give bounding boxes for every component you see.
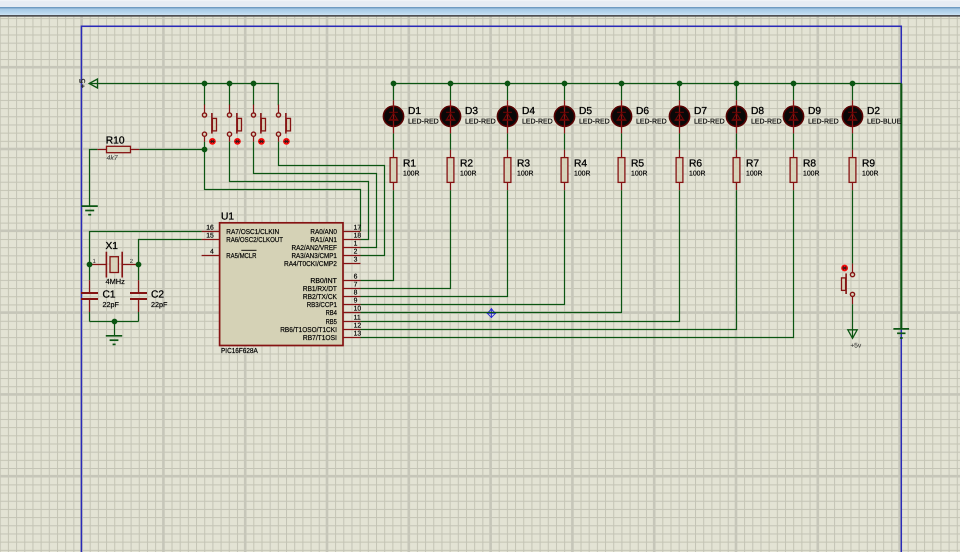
svg-text:LED-RED: LED-RED — [522, 119, 553, 126]
resistor R2 (100R) — [447, 150, 476, 190]
svg-text:D4: D4 — [522, 106, 535, 117]
resistor R9 (100R) — [849, 150, 878, 190]
svg-text:RA7/OSC1/CLKIN: RA7/OSC1/CLKIN — [226, 228, 279, 236]
svg-text:RA6/OSC2/CLKOUT: RA6/OSC2/CLKOUT — [226, 236, 283, 244]
svg-text:R2: R2 — [460, 159, 473, 170]
svg-text:RB0/INT: RB0/INT — [310, 277, 337, 285]
svg-text:D2: D2 — [867, 106, 880, 117]
svg-text:12: 12 — [354, 323, 362, 330]
svg-text:4MHz: 4MHz — [106, 277, 126, 286]
U1 pin 6 (RB0/INT) — [310, 274, 360, 286]
svg-text:4: 4 — [210, 249, 214, 256]
wire: R10 left to ground — [90, 150, 98, 206]
svg-text:RB6/T1OSO/T1CKI: RB6/T1OSO/T1CKI — [280, 326, 337, 334]
svg-text:C2: C2 — [151, 290, 164, 301]
wire: D2 cathode to R9 — [852, 133, 854, 149]
svg-text:RA3/AN3/CMP1: RA3/AN3/CMP1 — [292, 252, 337, 260]
U1 pin 8 (RB2/TX/CK) — [303, 290, 361, 302]
svg-text:100R: 100R — [862, 170, 878, 177]
svg-text:U1: U1 — [221, 212, 234, 223]
LED D1 (LED-RED) — [383, 84, 438, 134]
svg-text:100R: 100R — [403, 170, 419, 177]
svg-text:LED-RED: LED-RED — [808, 119, 839, 126]
wire: R3 to U1 pin 8 (RB2) — [361, 190, 508, 296]
LED D9 (LED-RED) — [783, 84, 838, 134]
wire: U1 pin 15 to X1 pin 2 — [139, 240, 202, 265]
U1 pin 12 (RB6/T1OSO/T1CKI) — [280, 323, 361, 335]
svg-text:3: 3 — [354, 257, 358, 264]
U1 pin 15 (RA6/OSC2/CLKOUT) — [202, 233, 284, 245]
wire: D8 cathode to R7 — [736, 133, 738, 149]
resistor R8 (100R) — [790, 150, 819, 190]
svg-text:LED-RED: LED-RED — [636, 119, 667, 126]
LED D2 (LED-BLUE) — [842, 84, 901, 134]
svg-text:LED-RED: LED-RED — [465, 119, 496, 126]
wire: +5 rail feeding push buttons — [98, 84, 278, 106]
svg-text:RB7/T1OSI: RB7/T1OSI — [303, 334, 337, 342]
svg-text:RA4/T0CKI/CMP2: RA4/T0CKI/CMP2 — [284, 260, 337, 268]
svg-text:+5v: +5v — [850, 343, 862, 350]
LED D4 (LED-RED) — [497, 84, 552, 134]
wire: SW2 to U1 pin 18 (RA1) — [230, 142, 369, 240]
U1 pin 18 (RA1/AN1) — [310, 233, 361, 245]
svg-text:LED-RED: LED-RED — [408, 119, 439, 126]
push button SW3 — [251, 105, 265, 145]
svg-text:PIC16F628A: PIC16F628A — [221, 346, 258, 355]
junction dots on +5 button rail — [202, 81, 257, 87]
crystal X1 (4MHz) — [90, 252, 139, 278]
wire: D4 cathode to R3 — [507, 133, 509, 149]
svg-text:9: 9 — [354, 298, 358, 305]
svg-text:R3: R3 — [517, 159, 530, 170]
LED D6 (LED-RED) — [611, 84, 666, 134]
svg-text:6: 6 — [354, 274, 358, 281]
ground (right border) — [893, 329, 909, 338]
svg-text:D3: D3 — [465, 106, 478, 117]
wire: C1/C2 common rail to ground — [90, 321, 139, 323]
svg-text:2: 2 — [354, 249, 358, 256]
LED D5 (LED-RED) — [554, 84, 609, 134]
svg-text:RA1/AN1: RA1/AN1 — [310, 236, 337, 244]
capacitor C1 (22pF) — [81, 265, 119, 322]
ground (center, below C1/C2) — [106, 336, 122, 345]
svg-text:22pF: 22pF — [151, 300, 168, 309]
svg-text:18: 18 — [354, 233, 362, 240]
svg-text:100R: 100R — [689, 170, 705, 177]
svg-text:RB5: RB5 — [326, 318, 337, 326]
svg-text:X1: X1 — [106, 241, 119, 252]
svg-text:R1: R1 — [403, 159, 416, 170]
svg-text:11: 11 — [354, 315, 361, 322]
svg-text:22pF: 22pF — [103, 300, 120, 309]
svg-text:LED-RED: LED-RED — [694, 119, 725, 126]
wire: D9 cathode to R8 — [793, 133, 795, 149]
node: X1 pin 2 junction — [136, 262, 142, 268]
U1 pin 11 (RB5) — [326, 315, 361, 327]
ground (left, below R10) — [81, 206, 97, 215]
wire: D1 cathode to R1 — [393, 133, 395, 149]
wire: D6 cathode to R5 — [621, 133, 623, 149]
resistor R5 (100R) — [618, 150, 647, 190]
svg-text:100R: 100R — [517, 170, 533, 177]
svg-text:D7: D7 — [694, 106, 707, 117]
junction dots on LED rail — [391, 81, 856, 87]
wire: D5 cathode to R4 — [564, 133, 566, 149]
wire: SW5 to +5v terminal — [852, 304, 854, 337]
svg-text:LED-BLUE: LED-BLUE — [867, 119, 902, 126]
svg-text:R10: R10 — [106, 135, 125, 146]
svg-text:D9: D9 — [808, 106, 821, 117]
wire: U1 pin 16 to X1 pin 1 — [90, 232, 202, 265]
svg-text:16: 16 — [206, 225, 214, 232]
svg-text:7: 7 — [354, 282, 358, 289]
wire: D3 cathode to R2 — [450, 133, 452, 149]
svg-text:100R: 100R — [574, 170, 590, 177]
resistor R4 (100R) — [561, 150, 590, 190]
resistor R3 (100R) — [504, 150, 533, 190]
svg-text:R8: R8 — [803, 159, 816, 170]
svg-text:D5: D5 — [579, 106, 592, 117]
wire: +5 LED anode rail, corners down right border to ground — [394, 83, 902, 85]
capacitor C2 (22pF) — [130, 265, 168, 322]
node: X1 pin 1 junction — [87, 262, 93, 268]
svg-text:RB1/RX/DT: RB1/RX/DT — [303, 285, 338, 293]
svg-text:100R: 100R — [631, 170, 647, 177]
svg-text:R9: R9 — [862, 159, 875, 170]
svg-text:R6: R6 — [689, 159, 702, 170]
wire: SW3 to U1 pin 1 (RA2) — [254, 142, 377, 248]
svg-text:8: 8 — [354, 290, 358, 297]
wire: R10 right to SW1 junction — [139, 149, 204, 151]
push button SW4 — [276, 105, 290, 145]
wire: R7 to U1 pin 12 (RB6) — [361, 190, 737, 329]
U1 pin 10 (RB4) — [326, 306, 362, 318]
svg-text:100R: 100R — [803, 170, 819, 177]
svg-text:RA5/MCLR: RA5/MCLR — [226, 252, 256, 260]
svg-text:17: 17 — [354, 225, 362, 232]
wire: R1 to U1 pin 6 (RB0) — [361, 190, 394, 280]
svg-text:RA2/AN2/VREF: RA2/AN2/VREF — [292, 244, 338, 252]
power terminal +5 — [80, 79, 98, 88]
wire: R9 to SW5 — [852, 190, 854, 263]
junction: capacitor ground node — [112, 319, 118, 325]
U1 pin 13 (RB7/T1OSI) — [303, 331, 361, 343]
LED D7 (LED-RED) — [669, 84, 724, 134]
resistor R7 (100R) — [733, 150, 762, 190]
LED D3 (LED-RED) — [440, 84, 495, 134]
svg-text:RB3/CCP1: RB3/CCP1 — [307, 301, 337, 309]
svg-text:1: 1 — [354, 241, 358, 248]
power terminal +5v (bottom arrow) — [848, 330, 862, 350]
wire: SW1 to U1 pin 17 (RA0) — [205, 142, 361, 232]
push button SW1 — [202, 105, 216, 145]
U1 pin 2 (RA3/AN3/CMP1) — [292, 249, 361, 261]
U1 pin 16 (RA7/OSC1/CLKIN) — [202, 225, 280, 237]
svg-text:D1: D1 — [408, 106, 421, 117]
svg-text:R5: R5 — [631, 159, 644, 170]
U1 pin 1 (RA2/AN2/VREF) — [292, 241, 361, 253]
U1 pin 17 (RA0/AN0) — [310, 225, 361, 237]
wire: R5 to U1 pin 10 (RB4) — [361, 190, 622, 312]
push button SW2 — [227, 105, 241, 145]
svg-text:15: 15 — [206, 233, 214, 240]
origin marker (blue diamond) — [487, 309, 496, 318]
U1 pin 4 (RA5/MCLR) — [202, 249, 257, 261]
U1 pin 3 (RA4/T0CKI/CMP2) — [284, 257, 361, 269]
junction: SW1 / R10 node — [202, 147, 208, 153]
svg-text:D8: D8 — [751, 106, 764, 117]
wire: R8 to U1 pin 13 (RB7) — [361, 190, 794, 337]
microcontroller U1 PIC16F628A — [220, 212, 343, 355]
svg-text:C1: C1 — [103, 290, 116, 301]
svg-text:4k7: 4k7 — [107, 154, 119, 162]
svg-text:R4: R4 — [574, 159, 587, 170]
svg-text:D6: D6 — [636, 106, 649, 117]
svg-text:LED-RED: LED-RED — [751, 119, 782, 126]
svg-text:LED-RED: LED-RED — [579, 119, 610, 126]
resistor R1 (100R) — [390, 150, 419, 190]
svg-text:100R: 100R — [746, 170, 762, 177]
svg-text:10: 10 — [354, 306, 362, 313]
svg-text:100R: 100R — [460, 170, 476, 177]
U1 pin 9 (RB3/CCP1) — [307, 298, 361, 310]
U1 pin 7 (RB1/RX/DT) — [303, 282, 361, 294]
resistor R6 (100R) — [676, 150, 705, 190]
wire: R6 to U1 pin 11 (RB5) — [361, 190, 680, 321]
push button SW5 (right, to +5v) — [841, 264, 854, 305]
resistor R10 — [97, 146, 139, 152]
svg-text:RB2/TX/CK: RB2/TX/CK — [303, 293, 337, 301]
svg-text:RB4: RB4 — [326, 309, 337, 317]
LED D8 (LED-RED) — [726, 84, 781, 134]
svg-text:13: 13 — [354, 331, 362, 338]
wire: R2 to U1 pin 7 (RB1) — [361, 190, 451, 288]
wire: D7 cathode to R6 — [679, 133, 681, 149]
wire: R4 to U1 pin 9 (RB3) — [361, 190, 565, 304]
svg-text:R7: R7 — [746, 159, 759, 170]
wire: SW4 to U1 pin 2 (RA3) — [279, 142, 385, 256]
svg-text:RA0/AN0: RA0/AN0 — [310, 228, 337, 236]
